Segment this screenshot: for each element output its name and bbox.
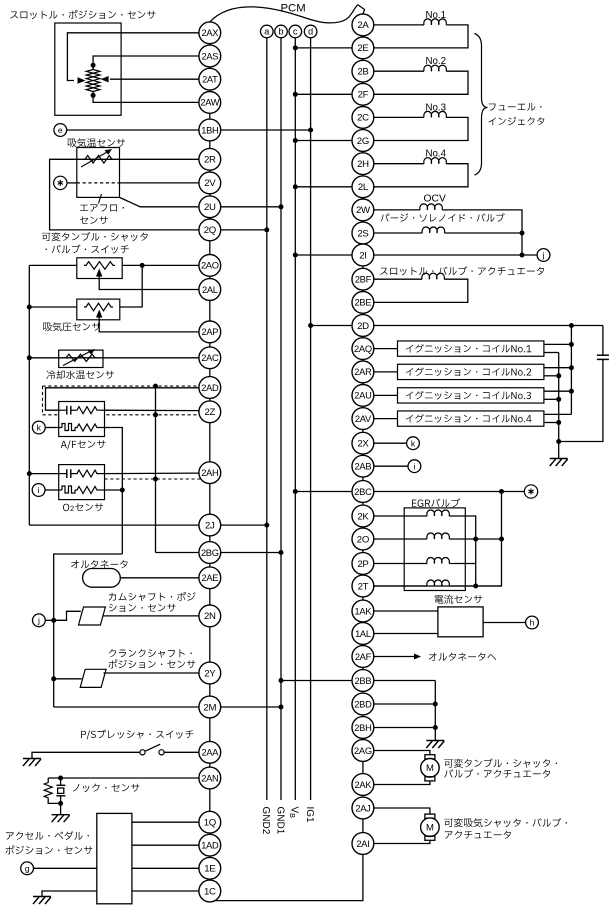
svg-text:2N: 2N [204,611,216,622]
wire 2D to IG1 bus [311,325,352,327]
O2 sensor cell (capacitor+resistor) [59,473,67,475]
ignition coil No.1 box [398,341,544,356]
svg-text:2AJ: 2AJ [355,803,370,813]
junction 2G/VB [293,138,298,143]
junction 2BC/VB [293,489,298,494]
pin 2AQ [352,338,374,360]
pin 2AJ [352,797,374,819]
wire 2R left loop to 2Q [50,159,199,230]
svg-text:2Z: 2Z [204,407,215,418]
svg-text:2AP: 2AP [201,327,218,337]
ignition coil No.2 box [398,364,544,379]
pin 2AE [199,567,221,589]
EGR coil 2 wire [374,538,427,540]
knock sensor resistor branch [47,778,49,782]
svg-text:i: i [413,461,415,471]
wire VB bus to 2I [295,254,352,256]
svg-text:PCM: PCM [281,3,306,15]
pin 2X [352,432,374,454]
svg-text:j: j [37,615,40,625]
wire to capacitor [602,326,604,356]
svg-text:1C: 1C [204,886,216,897]
pin 2AW [199,92,221,114]
pin 1E [199,857,221,879]
svg-text:i: i [38,485,40,495]
wire 2BH to ground drop [374,727,436,729]
label EGRバルブ [412,498,460,507]
pin 2I [352,244,374,266]
svg-text:2U: 2U [204,202,216,213]
pin g [21,862,34,875]
svg-text:k: k [411,438,416,448]
label ション・センサ [109,604,176,612]
label ノック・センサ [73,784,140,792]
O2 sensor box [59,465,105,500]
junction ignition bus A top [569,323,574,328]
junction coil3/bus A [569,389,574,394]
ignition coil No.3 ground wire [544,398,559,400]
fuel injector No.1 coil [374,24,424,26]
label パージ・ソレノイド・バルブ [381,213,505,222]
pin 1BH [199,119,221,141]
svg-text:2L: 2L [358,182,369,193]
ground (2BB group) [426,740,444,742]
pin j (left) [33,614,46,627]
junction 2D/IG1 [308,323,313,328]
junction j-net/crankshaft [51,676,56,681]
wire P/S switch to 2AA [164,751,199,753]
svg-text:k: k [37,423,42,433]
pin 2AA [199,741,221,763]
throttle position sensor box [55,23,121,115]
wire alternator to 2AE [120,577,199,579]
label 吸気圧センサ [43,322,100,331]
wire j-net to 2M [54,706,199,708]
EGR solenoid coil 2 [427,533,450,539]
pin 2AP [199,321,221,343]
junction 2L/VB [293,184,298,189]
pin 2A [352,14,374,36]
pin 2BF [352,268,374,290]
pin 2O [352,528,374,550]
svg-text:c: c [293,27,298,37]
camshaft position sensor symbol [79,607,106,625]
svg-text:2D: 2D [357,321,369,332]
svg-text:2AX: 2AX [201,28,218,38]
wire 2AT to wiper right [110,78,199,80]
wire accel to 1AD [132,844,199,846]
svg-text:No.3: No.3 [426,102,446,113]
wire pin g to accel sensor [33,867,96,869]
wire box corner to 2U [120,197,199,206]
wire 2Q to GND2 bus [221,229,267,231]
svg-text:2K: 2K [357,511,369,522]
wiper arrow to 2AP [99,315,199,332]
svg-text:1Q: 1Q [204,818,216,829]
wire purge net down to 2I [521,233,523,255]
wire 2BG to GND1 bus [221,552,281,554]
svg-text:2AQ: 2AQ [354,344,372,354]
pin b [275,25,288,38]
coolant temp sensor box [59,350,103,367]
wire 1AL to current sensor [374,633,438,635]
svg-text:1AL: 1AL [355,629,371,639]
pin 2M [199,696,221,718]
svg-text:2BH: 2BH [354,723,371,733]
label 可変タンブル・シャッタ [42,232,148,241]
P/S pressure switch contacts [140,750,145,755]
resistor element (pressure sensor) [84,303,113,311]
label O2センサ label [63,504,69,511]
ignition coil No.4 ground wire [544,422,559,424]
pin 2AO [199,255,221,277]
ignition coil No.4 supply wire [544,413,572,415]
wire 2BC to VB bus [295,491,352,493]
svg-text:2AC: 2AC [201,353,219,363]
svg-text:2I: 2I [359,250,366,261]
wire 2AS to pot top [93,56,199,66]
pin 2BB [352,670,374,692]
pin 2BG [199,542,221,564]
svg-text:GND2: GND2 [260,807,271,835]
svg-text:2AG: 2AG [354,746,372,756]
wire accel to 1E [132,867,199,869]
A/F sensor cell (capacitor+resistor) [59,409,67,411]
svg-text:GND1: GND1 [274,807,285,835]
junction 2BG/GND1 [279,550,284,555]
junction shield/2Z [153,412,158,417]
pin 2W [352,199,374,221]
pin 2B [352,60,374,82]
svg-text:2V: 2V [204,178,216,189]
net IG1 bus (pin d) vertical wire [310,38,312,800]
wire 2AV to ignition coil No.4 [374,418,398,420]
label エアフロ・ [80,204,124,211]
wire 2I to pin j [374,254,537,256]
wire 2AX to wiper left [67,33,199,81]
EGR coil 4 wire [374,585,427,587]
wire 2AD to A/F cell [46,388,199,410]
wire 2U to GND1 bus [221,206,281,208]
OCV coil [374,209,420,211]
wire 2M to GND1 bus [221,706,281,708]
junction shield/2AD [153,384,158,389]
label イグニッション・コイルNo.4 [406,414,532,423]
label センサ [80,216,108,224]
label A/Fセンサ [61,440,106,449]
pin 2G [352,130,374,152]
pin 2BC [352,481,374,503]
pin 2R [199,148,221,170]
label 可変タンブル・シャッタ・ [444,759,557,768]
pin 2AC [199,347,221,369]
label イグニッション・コイルNo.3 [406,391,531,400]
wire pressure box right up to 2AO node [120,265,142,307]
fuel injector No.3 coil [374,116,424,118]
svg-text:2AF: 2AF [355,652,372,662]
throttle valve actuator coil [374,278,422,280]
svg-text:b: b [278,27,283,37]
svg-text:2AL: 2AL [202,285,218,295]
wire 2AF to alternator (arrow) [374,656,415,658]
wire A/F cell to 2Z [105,409,199,411]
net GND1 bus (pin b) vertical wire [280,38,282,800]
wire O2 cell to 2AH [105,472,199,475]
thermistor element (intake air temp) [83,156,114,164]
svg-text:2W: 2W [356,205,371,216]
junction knock bottom [58,801,63,806]
EGR coil 1 wire [374,515,427,517]
wiper arrow to 2AL [99,274,199,290]
pin h [526,616,539,629]
svg-text:2BC: 2BC [354,487,372,497]
fuel injector brace [475,34,488,176]
wire 2BD to ground drop [374,703,436,705]
pin 2BH [352,717,374,739]
svg-text:2AI: 2AI [356,839,369,849]
pin 2C [352,107,374,129]
svg-text:1AK: 1AK [355,606,373,616]
pin 1C [199,880,221,902]
pin 2AX [199,22,221,44]
pin 2AB [352,455,374,477]
svg-text:j: j [542,250,545,260]
svg-text:2AD: 2AD [201,383,219,393]
svg-text:2S: 2S [357,228,368,239]
junction 2T/2K net [473,584,478,589]
junction 2M/GND1 [279,705,284,710]
EGR valve box [404,508,465,591]
junction 2E/VB [293,45,298,50]
pin 2AG [352,740,374,762]
pin k [32,421,45,434]
ground (knock sensor) [52,814,70,816]
pin 2F [352,83,374,105]
wire 2BG to shield drain [156,552,199,554]
svg-text:2BF: 2BF [355,275,372,285]
svg-text:h: h [530,618,535,628]
net GND2 bus (pin a) vertical wire [266,38,268,800]
junction 2I/VB [293,253,298,258]
label ポジション・センサ [6,845,93,854]
svg-text:d: d [308,27,313,37]
label 電流センサ [435,595,483,604]
svg-text:1E: 1E [204,864,215,875]
potentiometer element (throttle sensor) [86,68,100,94]
wire 2AR to ignition coil No.2 [374,371,398,373]
pin 2AS [199,45,221,67]
A/F sensor box [59,402,105,437]
wire accel sensor to ground [42,891,97,897]
knock sensor piezo branch [60,778,62,785]
label 吸気温センサ [68,138,125,147]
svg-text:a: a [264,27,269,37]
junction coil1/bus A [569,342,574,347]
net VB bus (pin c) vertical wire [294,38,296,800]
svg-text:2C: 2C [357,113,369,124]
pin 2P [352,553,374,575]
svg-text:2AO: 2AO [201,261,219,271]
svg-text:2G: 2G [357,136,369,147]
pin 2N [199,605,221,627]
svg-text:2AH: 2AH [201,468,218,478]
pin 2Q [199,219,221,241]
junction coil3/bus B [556,397,561,402]
pin c [289,25,302,38]
svg-text:2AA: 2AA [201,748,219,758]
junction 2BD/ground drop [433,702,438,707]
pin i (right) [408,460,421,473]
pin 1AD [199,834,221,856]
fuel injector No.2 coil [374,70,424,72]
junction 2O/2K net [473,537,478,542]
junction 2I/purge net [520,253,525,258]
junction left bus/O2 [27,471,32,476]
label バルブ・アクチュエータ [444,769,550,778]
ignition bus B vertical [558,353,560,459]
ground drop vertical (2BB/2BD/2BH) [434,681,436,741]
wire 2AQ to ignition coil No.1 [374,348,398,350]
junction coil2/bus B [556,373,561,378]
junction 2O/EGR drop [499,537,504,542]
junction 2F/VB [293,92,298,97]
ignition coil No.2 supply wire [544,367,572,369]
svg-text:2AW: 2AW [200,98,219,108]
svg-text:2J: 2J [205,520,215,531]
ignition coil No.3 supply wire [544,390,572,392]
ground (P/S switch) [23,758,41,760]
junction purge/2I net [520,231,525,236]
label ・バルブ・スイッチ [46,245,129,254]
svg-text:2AE: 2AE [201,573,218,583]
pin k (right) [407,437,420,450]
pin 1Q [199,811,221,833]
svg-text:No.4: No.4 [426,149,447,160]
wire 2AB to pin i [374,465,408,467]
svg-text:No.2: No.2 [426,56,446,67]
svg-text:M: M [426,763,434,774]
purge solenoid valve coil [374,232,423,234]
pin 2D [352,315,374,337]
svg-text:2H: 2H [357,159,369,170]
svg-text:2AK: 2AK [355,780,373,790]
thermistor element (coolant temp) [64,354,97,361]
wire coolant sensor to 2AC [29,357,199,359]
pin 2T [352,575,374,597]
junction 2BC/EGR drop [499,489,504,494]
svg-text:2AN: 2AN [201,773,218,783]
pin 1AL [352,623,374,645]
wire left bus to O2 cell [29,473,58,475]
wire 2BB to GND1 bus [281,680,352,682]
svg-text:2BG: 2BG [201,548,219,558]
potentiometer top node [91,63,96,68]
wire crankshaft sensor to 2Y [103,672,198,674]
pin e [54,124,67,137]
intake shutter valve actuator motor M2 [374,808,430,814]
right pin column strip [362,14,364,844]
label ポジション・センサ [108,659,195,668]
junction 2J/GND2 [264,523,269,528]
wire 2D to ignition supply [374,325,603,327]
shield (dashed) around A/F sensor [43,385,200,387]
wire 1AK to current sensor [374,610,438,612]
pin d [304,25,317,38]
label アクセル・ペダル・ [6,831,89,840]
PCM module boundary (wavy line) [210,5,365,23]
svg-text:g: g [25,863,30,873]
pin 2S [352,222,374,244]
svg-text:2M: 2M [203,702,216,713]
A/F heater element [59,427,62,429]
pin j (right) [537,249,550,262]
wire 2BC to pin * [374,491,525,493]
pin 2AF [352,646,374,668]
label スロットル・ポジション・センサ [10,10,155,19]
wire 1BH to IG1 bus [221,129,311,131]
tumble shutter valve switch box [77,258,122,279]
svg-text:2P: 2P [357,559,368,570]
junction j-net [51,618,56,623]
crankshaft position sensor symbol [80,669,106,687]
pin 2AR [352,361,374,383]
pin 2Y [199,662,221,684]
junction 2BB/GND1 [279,678,284,683]
pin 2AH [199,462,221,484]
pin 2AT [199,68,221,90]
O2 heater element [59,489,62,491]
svg-text:2B: 2B [357,67,368,78]
pin i (left) [32,484,45,497]
accelerator pedal position sensor box [97,813,132,903]
svg-text:1AD: 1AD [201,841,219,851]
junction 2Q/GND2 [264,227,269,232]
junction shield/2AH [153,477,158,482]
svg-text:No.1: No.1 [426,10,446,21]
svg-text:e: e [58,125,63,135]
svg-text:2AV: 2AV [355,414,372,424]
EGR coil 3 wire [374,563,427,565]
wire pin e to 1BH [67,129,199,131]
svg-text:2F: 2F [358,90,369,101]
wire pin i to O2 heater [45,489,59,491]
junction coil2/bus A [569,365,574,370]
svg-text:2X: 2X [357,439,369,450]
wire pin k to A/F heater [45,427,59,429]
pin 2V [199,172,221,194]
svg-text:OCV: OCV [424,194,446,205]
wire O2 heater junction [105,489,123,491]
svg-text:2Y: 2Y [204,668,216,679]
svg-text:2BB: 2BB [355,676,372,686]
wire knock to ground [60,803,62,814]
label P/Sプレッシャ・スイッチ [81,730,193,740]
pin 2AU [352,385,374,407]
left vertical bus (sensor ground) [28,265,30,525]
svg-text:2Q: 2Q [204,225,216,236]
pin 2AK [352,774,374,796]
shield drain vertical to 2BG [155,386,157,552]
wire EGR drop vertical [374,492,502,587]
label アクチュエータ [445,831,511,839]
wire camshaft sensor to 2N [103,615,199,617]
junction left bus/2AC [27,355,32,360]
label フューエル・ [489,103,542,111]
svg-text:2AU: 2AU [354,391,371,401]
current sensor box [438,607,483,637]
ignition coil No.1 ground wire [544,352,559,354]
wire accel to 1C [132,890,199,892]
